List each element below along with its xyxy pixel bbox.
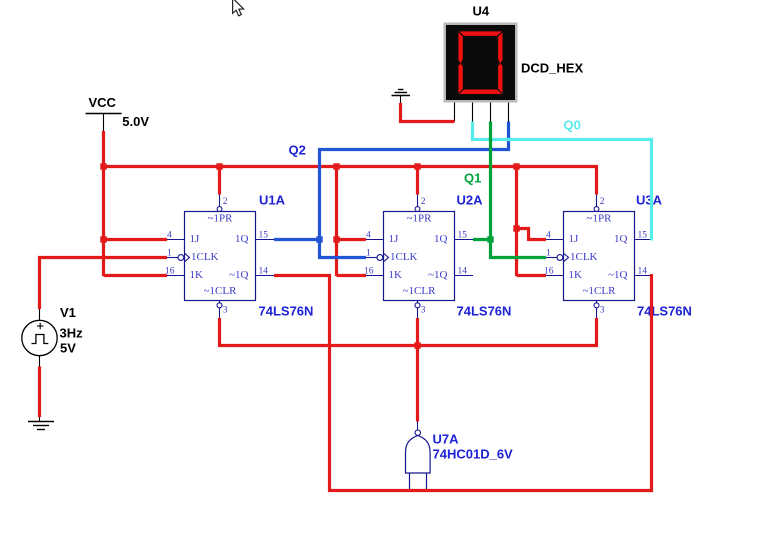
svg-text:2: 2: [223, 197, 228, 207]
svg-text:U3A: U3A: [636, 193, 663, 208]
svg-text:1K: 1K: [569, 269, 583, 281]
svg-text:U4: U4: [473, 4, 490, 19]
wire NAND output up to CLR rail: [416, 346, 419, 422]
svg-text:~1Q: ~1Q: [229, 269, 248, 281]
wire VCC power rail: [104, 167, 597, 195]
svg-text:~1PR: ~1PR: [587, 213, 613, 225]
NAND gate U7A: [406, 422, 431, 490]
svg-text:U1A: U1A: [259, 193, 286, 208]
svg-text:15: 15: [259, 231, 269, 241]
segment A: [459, 31, 502, 36]
svg-text:U2A: U2A: [457, 193, 484, 208]
svg-text:15: 15: [638, 231, 648, 241]
svg-text:74LS76N: 74LS76N: [259, 304, 314, 319]
node Q1 junction: [487, 236, 493, 242]
svg-text:74LS76N: 74LS76N: [457, 304, 512, 319]
svg-text:1Q: 1Q: [434, 233, 448, 245]
svg-text:1CLK: 1CLK: [570, 251, 598, 263]
wire jog to U3A 1J: [517, 229, 547, 240]
wire VCC to U1A 1J: [104, 238, 168, 241]
svg-text:3: 3: [421, 306, 426, 316]
svg-text:1Q: 1Q: [235, 233, 249, 245]
seven-segment display U4: [444, 23, 518, 103]
svg-text:4: 4: [167, 231, 172, 241]
svg-text:U7A: U7A: [433, 432, 460, 447]
svg-text:14: 14: [458, 267, 468, 277]
svg-text:~1Q: ~1Q: [428, 269, 447, 281]
svg-text:~1PR: ~1PR: [208, 213, 234, 225]
node VCC @U1A 1J: [100, 236, 106, 242]
node CLR rail @NAND out: [414, 342, 420, 348]
svg-text:1K: 1K: [389, 269, 403, 281]
flip-flop U3A (74LS76N): [544, 195, 653, 319]
svg-text:3: 3: [600, 306, 605, 316]
svg-text:1CLK: 1CLK: [390, 251, 418, 263]
svg-text:5.0V: 5.0V: [122, 114, 149, 129]
svg-text:3: 3: [223, 306, 228, 316]
svg-text:DCD_HEX: DCD_HEX: [521, 61, 583, 76]
svg-text:1K: 1K: [190, 269, 204, 281]
node Q2 junction: [316, 236, 322, 242]
ground (below V1): [28, 417, 54, 430]
flip-flop U1A (74LS76N): [165, 195, 274, 319]
segment F: [458, 32, 462, 63]
wire rail drop to U2A J K: [335, 167, 338, 277]
wire V1 to ground: [38, 367, 41, 418]
wire feedback ~1Q U1A to NAND to ~1Q U3A: [274, 274, 652, 491]
svg-text:VCC: VCC: [89, 95, 117, 110]
svg-text:2: 2: [421, 197, 426, 207]
node rail @U2A PR: [414, 163, 420, 169]
svg-text:4: 4: [366, 231, 371, 241]
svg-text:1CLK: 1CLK: [191, 251, 219, 263]
ground (above, inverted): [392, 90, 411, 104]
node VCC rail @VCC: [100, 163, 106, 169]
wire Q0 cyan net: [473, 122, 652, 241]
svg-text:15: 15: [458, 231, 468, 241]
svg-text:Q0: Q0: [564, 118, 581, 133]
segment D: [459, 90, 502, 95]
node U2A 1J branch: [333, 236, 339, 242]
svg-text:1: 1: [167, 249, 172, 259]
wire Q1 green net: [473, 122, 546, 258]
wire to U2A 1K: [337, 274, 367, 277]
node U3A 1J branch: [513, 225, 519, 231]
svg-text:~1CLR: ~1CLR: [204, 285, 238, 297]
wire Q2 blue net: [274, 122, 509, 258]
svg-text:4: 4: [546, 231, 551, 241]
svg-text:~1PR: ~1PR: [407, 213, 433, 225]
wire V1 to U1A 1CLK: [40, 258, 168, 310]
wire to U2A 1J: [337, 238, 367, 241]
svg-text:5V: 5V: [60, 341, 76, 356]
node rail @U1A PR: [216, 163, 222, 169]
svg-text:1Q: 1Q: [614, 233, 628, 245]
svg-text:1: 1: [546, 249, 551, 259]
wire rail drop to U3A J K: [515, 167, 518, 277]
svg-text:74LS76N: 74LS76N: [637, 304, 692, 319]
svg-text:V1: V1: [60, 305, 76, 320]
svg-text:14: 14: [638, 267, 648, 277]
segment B: [498, 32, 502, 63]
svg-text:~1Q: ~1Q: [608, 269, 627, 281]
node rail @U2A JK drop: [333, 163, 339, 169]
wire rail to U2A ~1PR: [416, 167, 419, 195]
svg-text:~1CLR: ~1CLR: [403, 285, 437, 297]
svg-text:2: 2: [600, 197, 605, 207]
svg-text:1J: 1J: [190, 233, 201, 245]
node rail @U3A JK drop: [513, 163, 519, 169]
wire U2A ~1CLR drop: [416, 318, 419, 346]
segment C: [498, 64, 502, 94]
wire VCC vertical: [102, 131, 105, 276]
wire display ground to U4 pin1: [401, 103, 455, 122]
svg-text:Q1: Q1: [464, 171, 481, 186]
wire ~1CLR rail: [220, 318, 597, 346]
clock source V1: [22, 309, 57, 367]
wire VCC to U1A 1K: [104, 274, 168, 277]
svg-text:1: 1: [366, 249, 371, 259]
svg-text:Q2: Q2: [289, 143, 306, 158]
svg-text:~1CLR: ~1CLR: [583, 285, 617, 297]
U4 pin stubs: [455, 103, 509, 122]
VCC power symbol: [86, 114, 122, 132]
mouse cursor: [233, 0, 244, 16]
svg-text:1J: 1J: [389, 233, 400, 245]
wire to U3A 1K: [517, 274, 547, 277]
wire rail to U1A ~1PR: [218, 167, 221, 195]
svg-text:14: 14: [259, 267, 269, 277]
svg-text:1J: 1J: [569, 233, 580, 245]
svg-text:74HC01D_6V: 74HC01D_6V: [433, 447, 514, 462]
svg-text:3Hz: 3Hz: [60, 326, 84, 341]
segment E: [458, 64, 462, 94]
flip-flop U2A (74LS76N): [364, 195, 473, 319]
